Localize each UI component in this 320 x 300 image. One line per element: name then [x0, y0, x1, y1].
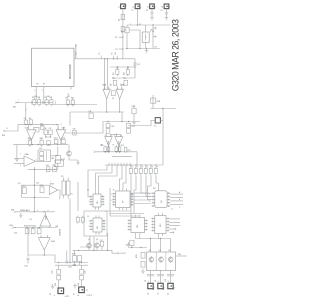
input pin IN1	[13, 101, 19, 108]
svg-text:C2: C2	[115, 49, 117, 51]
svg-text:C39: C39	[72, 129, 75, 131]
capacitor C11	[49, 128, 53, 134]
wire	[134, 203, 151, 205]
wire	[14, 227, 57, 229]
wire	[36, 160, 39, 162]
svg-text:U3A: U3A	[25, 153, 30, 156]
label jack4	[155, 280, 157, 282]
label pins U9	[149, 194, 173, 211]
wire	[134, 196, 151, 198]
resistor R26	[136, 253, 145, 268]
wire	[44, 212, 46, 215]
wire	[17, 102, 53, 104]
svg-text:C37: C37	[100, 240, 103, 242]
label s2	[39, 148, 54, 160]
wire	[40, 226, 42, 228]
wire	[126, 25, 128, 27]
label misc2	[105, 135, 123, 137]
capacitor C39	[72, 129, 76, 135]
net arrow O2	[169, 231, 174, 233]
label U8	[60, 229, 62, 236]
wire	[28, 255, 55, 263]
capacitor C23	[73, 264, 76, 265]
wire	[106, 59, 108, 89]
wire	[118, 146, 120, 152]
label drive	[178, 254, 181, 256]
node S	[34, 211, 45, 212]
wire	[27, 228, 29, 257]
svg-text:L: L	[18, 100, 19, 102]
wire	[57, 163, 59, 169]
wire	[55, 262, 88, 264]
ground	[145, 49, 149, 54]
svg-text:2: 2	[42, 90, 43, 92]
svg-text:C52: C52	[36, 183, 39, 185]
wire	[170, 203, 183, 205]
wire	[134, 199, 151, 201]
wire	[123, 165, 126, 188]
wire	[79, 262, 81, 266]
svg-text:Q1: Q1	[88, 239, 90, 241]
wire	[152, 95, 154, 109]
label main board conn	[76, 43, 78, 58]
svg-text:P4: P4	[160, 10, 162, 12]
wire	[126, 33, 128, 49]
wire	[141, 175, 152, 193]
wire	[134, 235, 136, 238]
node D	[115, 37, 123, 40]
resistor bank RN1	[129, 164, 157, 175]
capacitor C6	[110, 80, 116, 86]
capacitor C17	[31, 229, 35, 234]
capacitor C27	[125, 240, 134, 246]
op-amp U5B	[115, 133, 123, 146]
ground	[65, 259, 69, 264]
net arrow VDD	[153, 35, 156, 37]
diode D2	[133, 63, 141, 66]
wire	[45, 125, 58, 130]
resistor R14	[107, 145, 110, 153]
wire	[95, 151, 137, 153]
capacitor C35	[46, 165, 50, 172]
wire	[129, 30, 140, 49]
svg-text:POWER CONN: POWER CONN	[76, 43, 78, 58]
svg-text:P7: P7	[43, 83, 45, 85]
transistor Q4	[159, 256, 164, 263]
svg-text:16: 16	[131, 194, 133, 196]
svg-text:.1: .1	[25, 110, 26, 112]
svg-text:X1: X1	[147, 294, 149, 296]
label values7	[87, 188, 157, 218]
capacitor C15	[40, 185, 45, 193]
input pin IN3	[11, 210, 18, 213]
wire	[130, 175, 132, 211]
svg-text:1: 1	[89, 221, 90, 223]
IC U6	[90, 191, 105, 209]
label s3	[18, 182, 52, 185]
svg-text:U4A: U4A	[45, 215, 48, 220]
svg-text:J4: J4	[162, 6, 164, 8]
tick marks	[31, 101, 55, 105]
IC U9	[152, 191, 171, 208]
ground	[15, 157, 19, 162]
resistor R6	[50, 97, 53, 106]
svg-text:OUT R: OUT R	[87, 295, 93, 297]
op-amp U4A	[40, 214, 51, 226]
wire	[69, 112, 71, 126]
svg-text:3: 3	[105, 135, 106, 137]
wire	[150, 239, 152, 253]
resistor R24	[78, 256, 82, 262]
node P	[32, 144, 59, 145]
wire	[121, 112, 123, 122]
wire	[136, 152, 138, 165]
wire	[134, 175, 136, 213]
wire	[25, 103, 27, 120]
node Z	[78, 250, 109, 251]
wire	[169, 221, 180, 223]
input pin REF	[94, 151, 98, 153]
wire	[58, 190, 60, 198]
label s1	[20, 154, 37, 167]
svg-text:U7: U7	[123, 201, 125, 203]
node AB2	[150, 238, 161, 239]
label jack1	[50, 292, 56, 296]
ground	[127, 242, 131, 247]
resistor R4	[38, 97, 41, 106]
resistor R2	[123, 68, 129, 76]
op-amp U3B	[49, 184, 57, 195]
ground	[150, 16, 154, 21]
pad P1	[61, 176, 70, 199]
svg-text:Q4: Q4	[159, 250, 161, 252]
capacitor C16	[25, 229, 29, 234]
svg-text:P1: P1	[71, 194, 73, 196]
connector J7	[79, 287, 89, 293]
wire	[156, 175, 159, 187]
connector J8	[148, 283, 155, 289]
capacitor C13	[61, 137, 66, 143]
resistor R1	[113, 68, 119, 76]
wire	[169, 225, 180, 227]
svg-text:2: 2	[149, 194, 150, 196]
connector J9	[158, 283, 165, 289]
wire	[81, 265, 83, 269]
svg-text:D1: D1	[119, 19, 121, 21]
ground	[76, 160, 80, 165]
svg-text:P2: P2	[131, 10, 133, 12]
wire	[96, 249, 98, 251]
resistor R27	[34, 124, 44, 132]
wire	[176, 255, 188, 257]
svg-text:C11: C11	[49, 128, 52, 130]
resistor R23	[72, 254, 77, 262]
capacitor C1	[121, 27, 128, 32]
svg-text:4K7: 4K7	[67, 96, 70, 98]
wire	[69, 250, 71, 262]
wire	[93, 237, 95, 251]
wire	[160, 271, 162, 278]
label misc7	[6, 100, 19, 130]
wire	[96, 165, 112, 191]
label values2	[114, 67, 130, 80]
svg-text:C40: C40	[55, 283, 57, 286]
wire	[131, 245, 133, 247]
capacitor C29	[157, 275, 164, 276]
wire	[43, 131, 44, 133]
module frame	[84, 211, 107, 236]
wire	[69, 199, 71, 251]
label jack3	[145, 280, 147, 282]
wire	[133, 114, 135, 120]
wire	[137, 9, 139, 25]
wire	[110, 215, 140, 217]
wire	[128, 247, 147, 249]
wire	[73, 262, 75, 266]
capacitor C8	[88, 111, 93, 119]
node V	[107, 121, 129, 122]
op-amp U2B	[56, 127, 66, 140]
label misc4	[34, 83, 45, 92]
node T	[26, 227, 39, 228]
wire	[51, 155, 58, 157]
label s6	[59, 194, 73, 200]
wire	[70, 111, 124, 113]
wire	[148, 175, 152, 199]
connector J4	[162, 4, 171, 9]
transistor Q1	[87, 242, 92, 249]
node L	[67, 104, 73, 105]
svg-text:C9: C9	[24, 118, 26, 120]
svg-text:P3: P3	[146, 10, 148, 12]
resistor R10	[28, 138, 33, 146]
node B	[111, 51, 114, 59]
wire	[107, 233, 109, 250]
wire	[133, 105, 135, 108]
svg-text:Q3: Q3	[149, 250, 151, 252]
wire	[22, 184, 50, 186]
svg-text:U8: U8	[97, 227, 99, 229]
svg-text:11: 11	[171, 209, 173, 211]
capacitor C5	[122, 27, 129, 33]
resistor R16	[118, 145, 124, 153]
node Q	[34, 169, 35, 170]
resistor R9	[29, 118, 32, 124]
wire	[170, 197, 183, 199]
svg-text:14: 14	[113, 190, 115, 192]
wire	[166, 9, 168, 12]
node N	[25, 124, 58, 125]
wire	[108, 146, 110, 152]
capacitor C37	[100, 240, 104, 251]
wire	[112, 156, 132, 158]
wire	[104, 211, 131, 217]
label pins U6x	[89, 196, 104, 203]
module frame Q array	[147, 252, 176, 271]
svg-text:J2: J2	[133, 6, 135, 8]
svg-text:Y1: Y1	[157, 294, 159, 296]
svg-text:6: 6	[48, 210, 49, 212]
wire	[127, 24, 170, 26]
resistor R15	[115, 145, 118, 153]
svg-text:C50: C50	[39, 148, 42, 150]
connector J1	[118, 3, 127, 8]
wire	[104, 59, 106, 89]
IC U8	[90, 215, 106, 234]
wire	[35, 87, 37, 101]
wire	[16, 145, 18, 157]
wire	[98, 165, 117, 191]
label date	[171, 19, 181, 91]
IC U7	[112, 188, 133, 210]
label misc6	[130, 24, 155, 32]
capacitor C34	[111, 91, 115, 100]
svg-text:C26: C26	[85, 271, 87, 274]
label values5	[55, 283, 93, 298]
svg-text:1: 1	[148, 281, 149, 283]
svg-text:3: 3	[89, 226, 90, 228]
svg-text:J3: J3	[148, 6, 150, 8]
wire	[106, 99, 108, 112]
wire	[135, 238, 170, 240]
wire	[150, 277, 152, 283]
wire	[58, 265, 60, 269]
node I	[117, 66, 136, 67]
wire	[55, 264, 88, 266]
svg-text:14: 14	[87, 190, 89, 192]
wire	[74, 58, 135, 60]
diode D1	[119, 15, 125, 22]
capacitor C22	[131, 106, 136, 114]
ground	[73, 284, 77, 289]
svg-text:OUT L: OUT L	[65, 296, 70, 298]
label s4	[30, 210, 49, 221]
node Y	[108, 163, 130, 166]
ground	[141, 269, 145, 274]
capacitor C36	[52, 165, 56, 172]
node H	[104, 58, 108, 59]
svg-text:R9: R9	[29, 118, 31, 120]
component box FB1	[38, 150, 51, 162]
node R	[34, 185, 35, 199]
capacitor C14	[22, 186, 27, 194]
wire	[16, 211, 55, 213]
svg-text:Q5: Q5	[168, 250, 170, 252]
wire	[30, 140, 32, 144]
wire	[81, 280, 83, 287]
capacitor C31	[167, 275, 174, 276]
wire	[43, 250, 45, 255]
net arrow O1	[169, 228, 176, 230]
node P2	[48, 144, 49, 145]
wire	[110, 133, 120, 135]
node D2a	[126, 48, 147, 49]
wire	[158, 187, 160, 191]
label	[68, 267, 71, 269]
svg-text:R23: R23	[72, 254, 75, 256]
node C	[115, 51, 118, 59]
op-amp U5A	[105, 133, 112, 146]
label values	[25, 96, 70, 127]
wire	[73, 250, 118, 253]
wire	[151, 9, 153, 12]
label values3	[101, 145, 159, 169]
label values4	[147, 281, 169, 295]
op-amp U2A	[25, 125, 36, 141]
svg-text:C1: C1	[126, 29, 128, 31]
wire	[33, 167, 35, 212]
wire	[88, 249, 90, 251]
node X	[162, 108, 163, 109]
resistor R3	[32, 97, 36, 106]
node O	[45, 135, 51, 138]
capacitor C7	[121, 80, 127, 86]
IC U12	[151, 213, 169, 236]
wire	[150, 108, 176, 110]
svg-text:R17: R17	[128, 150, 131, 152]
wire	[170, 193, 183, 195]
wire	[139, 235, 141, 238]
svg-text:VM: VM	[178, 254, 181, 256]
node U	[44, 254, 45, 255]
svg-text:Q2: Q2	[96, 239, 98, 241]
wire	[60, 140, 62, 144]
svg-text:2: 2	[158, 281, 159, 283]
capacitor C12	[54, 137, 59, 143]
label pins U8	[89, 221, 105, 228]
node F	[137, 24, 138, 25]
wire	[53, 104, 97, 106]
node D2b	[152, 31, 153, 32]
relay K1	[142, 25, 149, 49]
resistor R17	[124, 147, 130, 152]
wire	[169, 218, 180, 220]
wire	[14, 163, 24, 165]
input pin IN2	[2, 125, 20, 137]
label values6	[131, 10, 162, 12]
label jack5	[165, 279, 167, 282]
ground	[132, 120, 136, 125]
label jack2	[74, 292, 80, 296]
wire	[110, 66, 135, 68]
wire	[110, 213, 144, 215]
input pin IN4	[10, 225, 17, 229]
wire	[66, 122, 103, 134]
svg-text:.1: .1	[114, 78, 115, 80]
component box X2	[55, 160, 64, 166]
wire	[152, 25, 154, 49]
connector J10	[168, 283, 175, 289]
svg-text:U1: U1	[112, 98, 114, 100]
svg-text:6: 6	[61, 124, 62, 126]
wire	[170, 277, 172, 283]
resistor R12	[56, 155, 66, 163]
crystal Y1	[153, 118, 163, 128]
connector J6	[58, 288, 64, 294]
wire	[14, 158, 24, 160]
label s5	[14, 226, 58, 234]
wire	[58, 280, 60, 288]
svg-text:R20 R21 R22: R20 R21 R22	[24, 225, 37, 227]
wire	[119, 99, 121, 112]
wire	[69, 157, 78, 160]
label pins U7	[111, 194, 133, 202]
op-amp U3A	[24, 153, 36, 167]
svg-text:L: L	[54, 295, 56, 296]
wire	[146, 175, 152, 196]
transistor Q2	[95, 242, 100, 249]
op-amp U4B	[38, 235, 55, 250]
